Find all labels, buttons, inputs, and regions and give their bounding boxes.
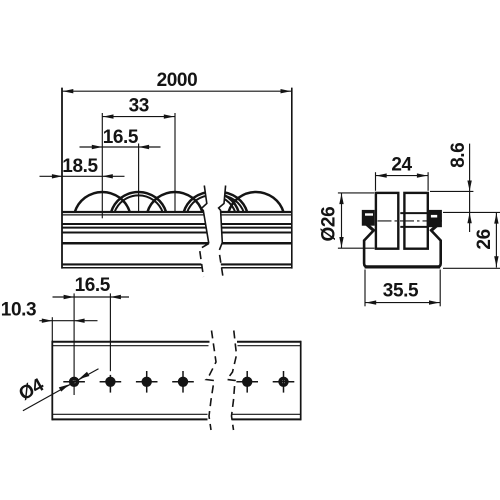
dimension O26 bottom arrow (339, 237, 343, 248)
top edge heavy right piece (237, 341, 301, 343)
dimension 16.5 (bottom) right arrow (110, 295, 121, 299)
dimension 24 right arrow (417, 173, 428, 177)
hub line lower (400, 226, 428, 228)
left clip body (362, 210, 375, 226)
roller wheel left half (376, 193, 398, 249)
dimension O26 ext line bottom (338, 247, 375, 249)
dimension 16.5 right arrow (139, 145, 150, 149)
roller 4 inner arc (cut by break) (187, 195, 235, 212)
dimension 33 line (102, 116, 175, 118)
roller 2 arc (111, 192, 166, 213)
top edge thin left piece (52, 345, 208, 347)
rail side view groove line 3 (62, 232, 292, 234)
dimension 24 left arrow (376, 173, 387, 177)
roller 2 inner arc (114, 195, 162, 212)
dimension 8.6 upper arrow (467, 181, 471, 192)
roller 6 arc (228, 192, 283, 213)
dimension 24 ext line right (427, 172, 429, 191)
hole 5 (242, 377, 252, 387)
bottom edge thin right piece (232, 413, 301, 415)
hole 4 (178, 377, 188, 387)
dimension 16.5 (bottom) ext line left / hole1 center line (73, 293, 75, 395)
svg-text:16.5: 16.5 (103, 127, 139, 148)
side view right break cut line (dashed part) (219, 243, 223, 278)
rail side view top line (62, 211, 292, 213)
side view left break cut line (solid part) (201, 186, 209, 244)
dimension 33 left arrow (103, 114, 114, 118)
bottom edge heavy left piece (52, 418, 207, 420)
left clip notch (white) (365, 213, 373, 215)
dimension 10.3 left arrow (42, 319, 53, 323)
bottom edge heavy right piece (232, 418, 301, 420)
dimension 26 top arrow (494, 213, 498, 224)
right clip body (429, 210, 442, 227)
dimension 10.3 ext line left (51, 317, 53, 341)
side view right break cut line (solid part) (219, 186, 226, 243)
dimension 8.6 line (469, 144, 471, 232)
dimension 24 line (376, 175, 429, 177)
svg-text:Ø4: Ø4 (16, 374, 48, 405)
dimension 24 ext line left (375, 172, 377, 191)
rail side view left edge (also ext line of 2000) (61, 88, 63, 269)
axle center line (dash-dot) (366, 220, 445, 222)
roller 5 arc (cut by break) (192, 192, 247, 213)
dimension 16.5 (bottom) ext line right (109, 293, 111, 371)
left clip tail (367, 224, 375, 231)
dimension 35.5 left arrow (366, 300, 377, 304)
break dashed zigzag left (206, 331, 216, 431)
rail side view groove line 1 (62, 223, 292, 225)
dimension 10.3 right arrow (74, 319, 85, 323)
roller 1 arc (75, 192, 130, 213)
roller 4 arc (cut by break) (184, 192, 239, 213)
hole 4 ticks (172, 381, 194, 383)
hole 6 (278, 377, 288, 387)
dimension 33 right arrow (164, 114, 175, 118)
svg-text:16.5: 16.5 (75, 275, 111, 296)
dimension 2000 right arrow (281, 89, 292, 93)
dimension 33 ext line left (101, 113, 103, 218)
dimension 18.5 left arrow (52, 174, 63, 178)
roller 5 inner arc (cut by break) (196, 195, 244, 212)
side view break white-out (200, 180, 226, 280)
dimension 2000 line (62, 90, 292, 92)
top edge heavy left piece (52, 341, 209, 343)
svg-text:10.3: 10.3 (1, 299, 36, 320)
dimension O4 arrow upper-right (79, 372, 90, 379)
svg-text:Ø26: Ø26 (319, 207, 340, 242)
svg-text:2000: 2000 (157, 70, 198, 91)
break dashed zigzag right (227, 331, 237, 431)
dimension 2000 left arrow (63, 89, 74, 93)
profile wall outline (364, 230, 441, 267)
dimension 16.5 left arrow (92, 145, 103, 149)
profile base bottom thick line (365, 265, 441, 268)
dimension O4 arrow lower-left (59, 384, 70, 391)
hole 1 horizontal tick (63, 381, 85, 383)
rail side view bottom line (62, 263, 292, 265)
dimension 16.5 (bottom) line (53, 296, 130, 298)
dimension 8.6 / 26 shared ext line (rail top) (443, 211, 500, 213)
svg-text:26: 26 (474, 229, 495, 249)
bottom edge thin left piece (52, 413, 207, 415)
rail side view top inner line (62, 214, 292, 216)
dimension 8.6 lower arrow (467, 213, 471, 224)
dimension 26 line (495, 212, 497, 267)
dimension 18.5 right arrow (102, 174, 113, 178)
svg-text:24: 24 (391, 155, 412, 176)
dimension O26 top arrow (339, 194, 343, 205)
dimension O26 line (341, 193, 343, 248)
dimension 35.5 ext line right (439, 270, 441, 307)
dimension 8.6 ext line top (wheel top) (430, 190, 473, 192)
bottom view left edge (51, 341, 53, 421)
hole 3 ticks (136, 381, 158, 383)
dimension 35.5 line (365, 302, 440, 304)
hole 2 (105, 377, 115, 387)
rail side view bottom outer line (62, 267, 292, 269)
dimension 35.5 ext line left (364, 270, 366, 307)
svg-text:8.6: 8.6 (448, 143, 469, 168)
top edge thin right piece (238, 345, 301, 347)
right clip notch (white) (431, 215, 437, 218)
dimension 33 ext line right (174, 113, 176, 213)
roller wheel right half (404, 193, 427, 249)
dimension 16.5 (bottom) left arrow (64, 295, 75, 299)
roller 3 arc (147, 192, 202, 213)
right clip tail (430, 224, 438, 231)
svg-text:33: 33 (129, 96, 149, 117)
side view left break cut line (dashed part) (200, 244, 209, 278)
dimension 26 bottom arrow (494, 256, 498, 267)
hole 3 (142, 377, 152, 387)
dimension O26 ext line top (338, 192, 374, 194)
rail side view groove line 2 (62, 227, 292, 229)
hole 5 ticks (236, 381, 258, 383)
rail side view right edge (also ext line of 2000) (291, 88, 293, 269)
hub line upper (400, 212, 428, 214)
dimension 18.5 line (40, 175, 125, 177)
dimension 26 ext line bottom (base bottom) (443, 267, 500, 269)
svg-text:18.5: 18.5 (62, 156, 98, 177)
hole 6 ticks (273, 381, 295, 383)
dimension O4 leader line (23, 369, 99, 411)
dimension 35.5 right arrow (429, 300, 440, 304)
hole 2 ticks (100, 381, 122, 383)
bottom view right edge (300, 341, 302, 421)
svg-text:35.5: 35.5 (383, 281, 419, 302)
dimension 10.3 line (39, 320, 97, 322)
rail side view mid thick line (62, 242, 292, 245)
dimension 16.5 ext line right (138, 144, 140, 214)
dimension 16.5 line (80, 146, 161, 148)
hole 1 (69, 377, 79, 387)
